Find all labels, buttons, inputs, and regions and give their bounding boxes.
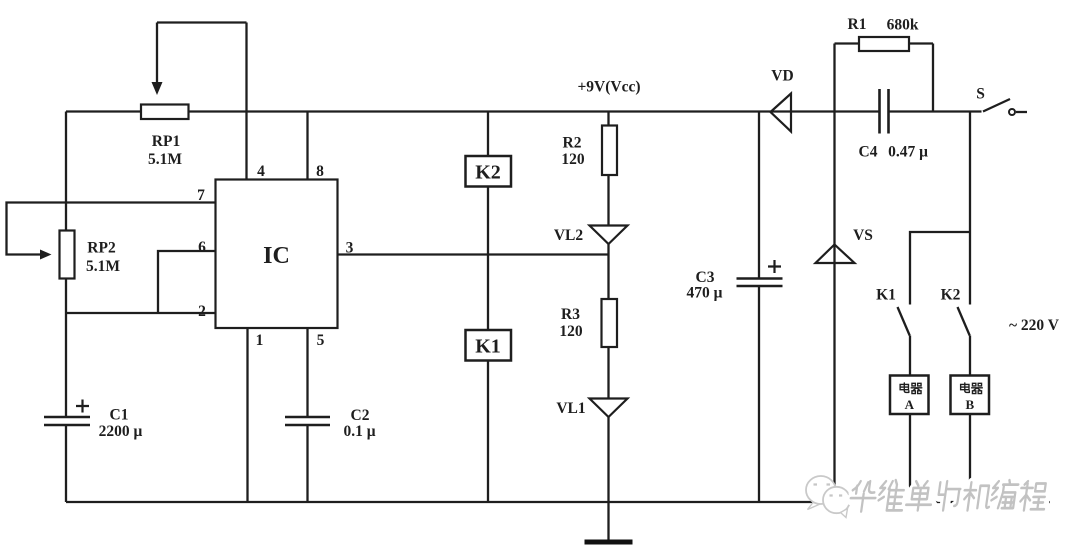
svg-text:5.1M: 5.1M bbox=[148, 151, 182, 168]
svg-text:2200 μ: 2200 μ bbox=[99, 423, 143, 440]
svg-text:C1: C1 bbox=[110, 407, 129, 424]
svg-text:A: A bbox=[905, 397, 915, 412]
svg-text:C4: C4 bbox=[859, 144, 878, 161]
svg-text:VL1: VL1 bbox=[556, 400, 585, 417]
svg-text:R1: R1 bbox=[848, 16, 867, 33]
svg-text:K2: K2 bbox=[475, 162, 501, 184]
svg-text:K2: K2 bbox=[941, 287, 961, 304]
svg-text:3: 3 bbox=[346, 240, 354, 257]
svg-text:4: 4 bbox=[257, 163, 265, 180]
svg-text:B: B bbox=[965, 397, 974, 412]
svg-text:1: 1 bbox=[256, 332, 264, 349]
svg-text:K1: K1 bbox=[475, 336, 501, 358]
svg-text:VL2: VL2 bbox=[554, 227, 584, 244]
svg-text:C2: C2 bbox=[351, 407, 370, 424]
svg-text:RP2: RP2 bbox=[87, 240, 116, 257]
svg-text:120: 120 bbox=[561, 151, 585, 168]
svg-text:120: 120 bbox=[559, 323, 583, 340]
svg-text:R3: R3 bbox=[561, 306, 580, 323]
svg-text:C3: C3 bbox=[696, 269, 715, 286]
svg-text:7: 7 bbox=[197, 187, 205, 204]
svg-text:0.47 μ: 0.47 μ bbox=[888, 144, 928, 161]
svg-text:~ 220 V: ~ 220 V bbox=[1009, 317, 1060, 334]
svg-text:680k: 680k bbox=[887, 17, 919, 34]
svg-text:8: 8 bbox=[316, 163, 324, 180]
svg-text:R2: R2 bbox=[563, 135, 582, 152]
svg-text:IC: IC bbox=[263, 243, 290, 269]
svg-text:470 μ: 470 μ bbox=[687, 285, 723, 302]
svg-text:2: 2 bbox=[198, 303, 206, 320]
svg-text:RP1: RP1 bbox=[152, 133, 180, 150]
svg-text:6: 6 bbox=[198, 239, 206, 256]
svg-text:S: S bbox=[976, 86, 985, 103]
svg-text:5: 5 bbox=[317, 332, 325, 349]
svg-text:+9V(Vcc): +9V(Vcc) bbox=[577, 79, 640, 96]
svg-text:VS: VS bbox=[853, 227, 873, 244]
svg-text:5.1M: 5.1M bbox=[86, 258, 120, 275]
svg-text:0.1 μ: 0.1 μ bbox=[343, 423, 375, 440]
svg-text:K1: K1 bbox=[876, 287, 896, 304]
svg-text:VD: VD bbox=[771, 68, 793, 85]
